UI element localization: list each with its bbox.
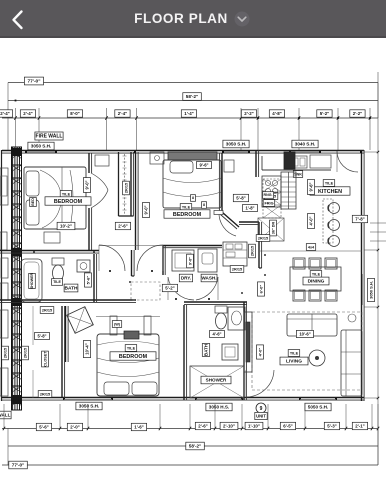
svg-text:BED: BED bbox=[31, 198, 35, 206]
svg-text:58'-2": 58'-2" bbox=[189, 444, 201, 449]
svg-text:5'-8": 5'-8" bbox=[236, 196, 245, 201]
svg-text:58'-2": 58'-2" bbox=[186, 94, 198, 99]
svg-text:8: 8 bbox=[203, 203, 205, 207]
svg-text:77'-0": 77'-0" bbox=[27, 79, 40, 85]
svg-text:2R/15: 2R/15 bbox=[3, 348, 7, 358]
svg-text:TILE: TILE bbox=[127, 346, 136, 350]
svg-text:10'-6": 10'-6" bbox=[299, 331, 310, 336]
svg-text:2R/15: 2R/15 bbox=[124, 183, 128, 193]
svg-text:5'-6": 5'-6" bbox=[85, 276, 90, 285]
svg-text:2R/15: 2R/15 bbox=[258, 236, 268, 240]
svg-text:FIRE WALL: FIRE WALL bbox=[0, 413, 11, 418]
svg-text:5050 S.H.: 5050 S.H. bbox=[308, 405, 328, 410]
svg-text:3040 S.H.: 3040 S.H. bbox=[295, 142, 315, 147]
svg-text:2'-4": 2'-4" bbox=[118, 111, 127, 116]
svg-text:9'-0": 9'-0" bbox=[188, 257, 192, 265]
svg-text:1'-10": 1'-10" bbox=[248, 424, 260, 429]
svg-text:3050 S.H.: 3050 S.H. bbox=[226, 142, 246, 147]
svg-text:9'-6": 9'-6" bbox=[308, 182, 313, 191]
svg-text:2'-6": 2'-6" bbox=[198, 424, 207, 429]
svg-text:3050 S.H.: 3050 S.H. bbox=[368, 281, 373, 299]
svg-text:5'-2": 5'-2" bbox=[165, 286, 174, 291]
svg-text:9'-0": 9'-0" bbox=[84, 180, 89, 189]
svg-text:2'-10": 2'-10" bbox=[223, 424, 235, 429]
svg-text:TILE: TILE bbox=[53, 280, 61, 284]
svg-text:BEDROOM: BEDROOM bbox=[54, 199, 83, 205]
svg-text:3050 S.H.: 3050 S.H. bbox=[31, 144, 51, 149]
svg-text:8'-0": 8'-0" bbox=[70, 111, 79, 116]
svg-text:BEDROOM: BEDROOM bbox=[119, 354, 148, 360]
svg-text:TILE: TILE bbox=[312, 272, 321, 276]
svg-text:9'-6": 9'-6" bbox=[199, 162, 208, 167]
svg-text:4x4: 4x4 bbox=[308, 245, 315, 249]
svg-text:UNIT: UNIT bbox=[256, 413, 266, 418]
svg-text:DRY.: DRY. bbox=[181, 276, 191, 281]
svg-text:FRIG: FRIG bbox=[264, 201, 273, 205]
svg-text:9'-0": 9'-0" bbox=[143, 205, 148, 214]
svg-text:LIVING: LIVING bbox=[286, 359, 302, 365]
svg-text:10'-2": 10'-2" bbox=[60, 224, 72, 229]
svg-text:1'-6": 1'-6" bbox=[134, 425, 143, 430]
svg-text:TILE: TILE bbox=[62, 192, 71, 196]
svg-text:2R/15: 2R/15 bbox=[40, 392, 50, 396]
svg-text:KITCHEN: KITCHEN bbox=[318, 189, 342, 195]
svg-text:4'-0": 4'-0" bbox=[257, 348, 262, 357]
svg-text:5'-8": 5'-8" bbox=[37, 333, 46, 338]
svg-text:3050 H.S.: 3050 H.S. bbox=[209, 405, 229, 410]
svg-text:RNG.: RNG. bbox=[264, 193, 273, 197]
svg-text:77'-0": 77'-0" bbox=[12, 463, 24, 468]
svg-text:3050 S.H.: 3050 S.H. bbox=[79, 404, 99, 409]
svg-text:2'-4": 2'-4" bbox=[23, 111, 32, 116]
svg-text:BATH: BATH bbox=[204, 344, 209, 356]
svg-text:5'-2": 5'-2" bbox=[320, 111, 329, 116]
svg-text:WASH.: WASH. bbox=[201, 276, 216, 281]
svg-text:6'-5": 6'-5" bbox=[283, 424, 292, 429]
svg-text:2'-6": 2'-6" bbox=[118, 224, 127, 229]
svg-text:DINING: DINING bbox=[308, 279, 325, 285]
svg-text:1'-4": 1'-4" bbox=[184, 111, 193, 116]
svg-text:9: 9 bbox=[260, 406, 263, 412]
svg-text:4'-6": 4'-6" bbox=[212, 331, 221, 336]
svg-text:5'-6": 5'-6" bbox=[39, 425, 48, 430]
svg-text:6'-0": 6'-0" bbox=[258, 285, 263, 294]
svg-text:BATH: BATH bbox=[65, 286, 79, 292]
svg-text:4'-0": 4'-0" bbox=[308, 216, 313, 225]
svg-text:2'-0": 2'-0" bbox=[70, 425, 79, 430]
svg-text:2R/15: 2R/15 bbox=[23, 348, 27, 358]
svg-text:BEDROOM: BEDROOM bbox=[173, 212, 202, 218]
svg-text:2'-4": 2'-4" bbox=[0, 111, 9, 116]
svg-text:5'-3": 5'-3" bbox=[327, 424, 336, 429]
svg-text:4'-8": 4'-8" bbox=[272, 111, 281, 116]
svg-text:CLOSET: CLOSET bbox=[43, 351, 47, 367]
svg-text:TILE: TILE bbox=[182, 205, 191, 209]
svg-text:8: 8 bbox=[192, 196, 194, 200]
svg-text:SNK: SNK bbox=[294, 172, 302, 176]
svg-text:2'-1": 2'-1" bbox=[355, 424, 364, 429]
svg-text:36" DR: 36" DR bbox=[271, 221, 275, 234]
svg-text:2R/15: 2R/15 bbox=[42, 308, 52, 312]
svg-text:(W): (W) bbox=[114, 322, 121, 326]
svg-text:7'-8": 7'-8" bbox=[355, 217, 364, 222]
svg-text:SHOWER: SHOWER bbox=[30, 273, 34, 290]
svg-text:2R/15: 2R/15 bbox=[232, 267, 242, 271]
svg-text:2'-2": 2'-2" bbox=[353, 111, 362, 116]
svg-text:TILE: TILE bbox=[325, 181, 334, 185]
svg-text:1'-8": 1'-8" bbox=[245, 205, 254, 210]
svg-text:2'-2": 2'-2" bbox=[244, 111, 253, 116]
svg-text:2R/15: 2R/15 bbox=[250, 246, 254, 256]
svg-text:FIRE WALL: FIRE WALL bbox=[36, 134, 63, 140]
svg-text:TILE: TILE bbox=[290, 351, 299, 355]
svg-text:10'-4": 10'-4" bbox=[84, 343, 89, 354]
svg-text:SHOWER: SHOWER bbox=[206, 378, 227, 383]
